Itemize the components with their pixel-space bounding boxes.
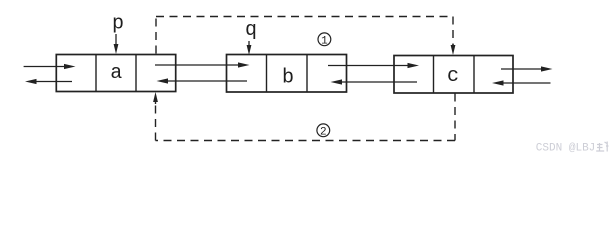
pointer p arrow	[114, 34, 119, 54]
dashed step-2 path: down from c	[454, 94, 456, 141]
svg-text:b: b	[282, 67, 294, 90]
node c divider 1	[433, 56, 435, 94]
svg-text:CSDN @LBJ: CSDN @LBJ	[536, 143, 596, 155]
svg-text:c: c	[447, 65, 459, 88]
node b box	[227, 55, 347, 93]
node a divider 1	[95, 55, 97, 92]
wire a.next to b (top arrow)	[155, 62, 250, 67]
svg-text:2: 2	[320, 126, 327, 138]
wire c.prior to b (bottom arrow)	[331, 79, 418, 84]
node a box	[56, 55, 175, 92]
svg-text:p: p	[112, 13, 124, 36]
node a divider 2	[135, 55, 137, 92]
dashed step-2 path: up to a	[155, 103, 157, 141]
svg-text:1: 1	[321, 35, 328, 47]
circled label 1	[318, 33, 331, 47]
wire c.next out (right top arrow)	[501, 66, 553, 71]
wire b.prior to a (bottom arrow)	[157, 78, 248, 83]
wire into c.next (right bottom arrow)	[492, 80, 551, 85]
dashed step-1 path: down to c	[452, 17, 454, 46]
node c divider 2	[473, 56, 475, 94]
node b divider 1	[266, 55, 268, 93]
dashed step-2 path: bottom horizontal	[156, 140, 456, 142]
watermark CSDN @LBJ辉	[536, 142, 609, 155]
step-2 arrowhead into a	[153, 92, 158, 104]
dashed step-1 path: up from a.next	[155, 17, 157, 54]
step-1 arrowhead into c	[451, 44, 456, 55]
svg-text:a: a	[110, 62, 122, 85]
node c box	[394, 56, 513, 94]
wire into a prev (left top arrow)	[24, 64, 76, 69]
node b divider 2	[306, 55, 308, 93]
pointer q arrow	[247, 41, 252, 55]
wire b.next to c (top arrow)	[328, 63, 419, 68]
circled label 2	[317, 124, 330, 138]
wire from a prev (left bottom arrow)	[25, 79, 72, 84]
svg-text:q: q	[245, 19, 257, 42]
dashed step-1 path: top horizontal	[156, 16, 453, 18]
